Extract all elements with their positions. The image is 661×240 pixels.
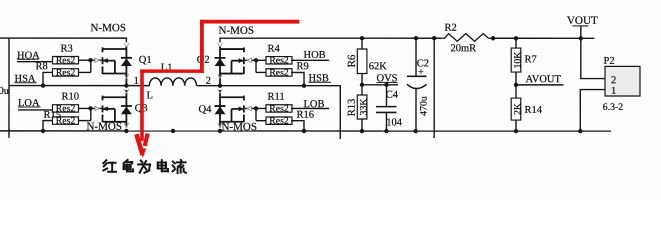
junction phase A at Q1 [124, 83, 128, 87]
junction [41, 83, 45, 87]
svg-text:20mR: 20mR [451, 43, 477, 54]
svg-text:R4: R4 [268, 44, 281, 55]
wire AVOUT [516, 84, 564, 86]
wire C2 top [415, 38, 417, 76]
transistor Q1 (N-MOS with body diode) [91, 47, 132, 86]
wire HOA to R3 [17, 61, 52, 63]
label N-MOS (Q3) [86, 121, 121, 133]
svg-text:R8: R8 [36, 61, 48, 72]
net label HSB [309, 73, 332, 84]
label R9 [297, 61, 309, 72]
junction Q4 source at GND [218, 129, 222, 133]
resistor R11 [266, 103, 292, 114]
junction [384, 83, 388, 87]
junction [360, 83, 364, 87]
net label LOA [18, 98, 41, 109]
label R3 [61, 44, 73, 55]
junction Q4 gate node [254, 106, 258, 110]
junction [432, 36, 436, 40]
junction [578, 129, 582, 133]
svg-text:33K: 33K [359, 99, 370, 116]
wire R7 top [515, 38, 517, 48]
label R15 [43, 110, 61, 121]
wire HOB [291, 59, 329, 61]
label N-MOS (Q1) [91, 22, 126, 34]
svg-text:Res2: Res2 [56, 67, 76, 78]
junction phase B at Q2 [218, 83, 222, 87]
svg-text:R6: R6 [346, 54, 358, 67]
svg-text:0u: 0u [0, 86, 10, 97]
svg-text:2: 2 [611, 75, 616, 86]
resistor R4 [266, 55, 292, 66]
svg-text:Res2: Res2 [56, 103, 76, 114]
svg-text:104: 104 [386, 117, 403, 128]
junction [360, 36, 364, 40]
pin 1 of P2 [611, 86, 616, 97]
svg-text:R11: R11 [267, 92, 284, 103]
transistor Q3 (N-MOS with body diode) [90, 89, 131, 128]
svg-text:HOB: HOB [304, 50, 326, 61]
wire GND bottom rail [0, 130, 611, 132]
wire R4/R9 to Q2 gate [256, 60, 266, 72]
wire R9 down to HSB [291, 72, 304, 85]
power port VOUT [567, 15, 598, 38]
junction AVOUT node [514, 83, 518, 87]
junction [384, 129, 388, 133]
red current-path annotation with arrow [136, 20, 299, 158]
svg-text:AVOUT: AVOUT [526, 74, 562, 85]
junction Q1 gate node [88, 58, 92, 62]
label Q3 [135, 103, 148, 114]
label C2 [417, 58, 429, 69]
net label OVS [377, 73, 398, 84]
label N-MOS (Q2) [219, 25, 254, 37]
wire R7 to AVOUT [515, 72, 517, 85]
net label LOB [303, 99, 324, 110]
resistor R13 [357, 95, 369, 119]
junction [302, 129, 306, 133]
wire C4 top [385, 85, 387, 107]
wire R11/R16 to Q4 gate [256, 108, 266, 120]
svg-text:R13: R13 [347, 99, 358, 117]
junction [413, 129, 417, 133]
label Q1 [139, 55, 152, 66]
wire R14 top [515, 85, 517, 98]
label R2 [445, 23, 457, 34]
svg-text:Q1: Q1 [139, 55, 152, 66]
svg-text:C4: C4 [386, 90, 399, 101]
resistor R10 [52, 103, 78, 114]
junction Q2 gate node [254, 58, 258, 62]
resistor R16 [266, 116, 292, 127]
label N-MOS (Q4) [221, 121, 256, 133]
wire R13 to GND [361, 119, 363, 131]
svg-text:P2: P2 [604, 56, 615, 67]
label R11 [267, 92, 284, 103]
junction [514, 36, 518, 40]
wire R15 to GND [43, 121, 53, 131]
wire VCC top rail left segment with hook into Q1 [0, 38, 129, 47]
value 62K [369, 61, 388, 72]
label R16 [296, 110, 314, 121]
net label AVOUT [526, 74, 562, 85]
svg-text:N-MOS: N-MOS [91, 22, 126, 34]
wire LOB [291, 107, 329, 109]
svg-text:R9: R9 [297, 61, 309, 72]
wire phase B to HSB corner [220, 86, 340, 139]
wire VCC top rail right segment with hook into Q2 [218, 38, 442, 47]
junction [579, 36, 583, 40]
svg-text:Res2: Res2 [269, 116, 289, 127]
wire left input bus [8, 38, 10, 138]
label R8 [36, 61, 48, 72]
svg-text:2K: 2K [513, 103, 524, 115]
label P2 [604, 56, 615, 67]
wire C2 to GND [415, 88, 417, 131]
wire R3/R8 to Q1 gate [79, 60, 91, 72]
wire R13 top [361, 85, 363, 95]
wire phase A (HSA) [9, 85, 126, 87]
svg-text:Res2: Res2 [269, 103, 289, 114]
label 6.3-2 [603, 102, 624, 113]
wire P2 pin1 to GND [580, 90, 605, 132]
wire vertical tap (crosses GND rail) [433, 38, 435, 138]
caption text 红色为电流 (red = current) [103, 160, 186, 173]
value 20mR [451, 43, 477, 54]
label R7 [525, 54, 537, 65]
transistor Q2 (N-MOS with body diode) [215, 47, 256, 86]
net label HSA [15, 74, 37, 85]
svg-text:62K: 62K [369, 61, 388, 72]
wire LOA to R10 [18, 109, 53, 111]
resistor R14 [511, 98, 523, 120]
label R13 [347, 99, 358, 117]
wire C4 to GND [385, 112, 387, 131]
svg-text:Res2: Res2 [269, 67, 289, 78]
svg-text:R14: R14 [524, 105, 542, 116]
svg-text:Res2: Res2 [56, 55, 76, 66]
resistor R2 (zigzag) [442, 34, 491, 42]
label R10 [61, 92, 79, 103]
value 470u [418, 96, 429, 116]
junction [414, 36, 418, 40]
svg-text:HOA: HOA [17, 50, 40, 61]
svg-text:R16: R16 [296, 110, 314, 121]
inductor L1 [126, 78, 220, 86]
capacitor C2 (polar) [407, 67, 427, 88]
svg-text:6.3-2: 6.3-2 [603, 102, 624, 113]
connector P2 body [605, 66, 640, 96]
label C4 [386, 90, 399, 101]
wire R8 to HSA [43, 72, 53, 85]
svg-text:1: 1 [134, 76, 139, 87]
wire VOUT to P2 pin2 [581, 38, 605, 78]
pin 1 of L1 [134, 76, 139, 87]
resistor R8 [53, 67, 79, 78]
resistor R6 [357, 49, 367, 74]
value 104 [386, 117, 403, 128]
svg-text:2: 2 [206, 76, 211, 87]
svg-text:VOUT: VOUT [567, 15, 598, 27]
junction [491, 36, 495, 40]
svg-text:1: 1 [611, 86, 616, 97]
resistor R15 [52, 116, 78, 127]
junction [514, 129, 518, 133]
junction Q3 gate node [88, 106, 92, 110]
label L (value) [146, 90, 152, 101]
wire top rail after R2 [491, 37, 595, 39]
net label HOA [17, 50, 40, 61]
svg-text:Q4: Q4 [198, 104, 212, 115]
svg-text:R2: R2 [445, 23, 457, 34]
svg-text:N-MOS: N-MOS [86, 121, 121, 133]
transistor Q4 (N-MOS with body diode) [214, 89, 255, 128]
svg-text:R10: R10 [61, 92, 79, 103]
junction (unconnected stub on GND rail) [171, 129, 175, 133]
svg-text:N-MOS: N-MOS [219, 25, 254, 37]
pin 2 of P2 [611, 75, 616, 86]
junction Q3 source at GND [124, 129, 128, 133]
label R14 [524, 105, 542, 116]
wire R10/R15 to Q3 gate [78, 108, 90, 120]
junction [41, 129, 45, 133]
capacitor value 0u (clipped input cap label) [0, 86, 10, 97]
resistor R3 [53, 55, 79, 66]
wire R14 to GND [515, 120, 517, 131]
label R4 [268, 44, 281, 55]
svg-text:L: L [146, 90, 152, 101]
junction [302, 83, 306, 87]
label L1 [161, 63, 173, 74]
svg-text:R7: R7 [525, 54, 537, 65]
label R6 [346, 54, 358, 67]
svg-text:Res2: Res2 [269, 55, 289, 66]
pin 2 of L1 [206, 76, 211, 87]
junction [360, 129, 364, 133]
svg-text:470u: 470u [418, 96, 429, 116]
resistor R9 [266, 67, 292, 78]
svg-text:C2: C2 [417, 58, 429, 69]
wire R6 to OVS [361, 74, 363, 85]
wire R16 down to GND [291, 121, 304, 131]
net label HOB [304, 50, 326, 61]
svg-text:N-MOS: N-MOS [221, 121, 256, 133]
svg-text:R3: R3 [61, 44, 73, 55]
svg-text:10K: 10K [513, 52, 524, 69]
label Q4 [198, 104, 212, 115]
resistor R7 [511, 48, 523, 72]
wire R6 top [361, 38, 363, 49]
svg-text:Res2: Res2 [56, 116, 76, 127]
wire OVS [362, 84, 398, 86]
label Q2 [197, 55, 210, 66]
capacitor C4 [376, 107, 397, 113]
